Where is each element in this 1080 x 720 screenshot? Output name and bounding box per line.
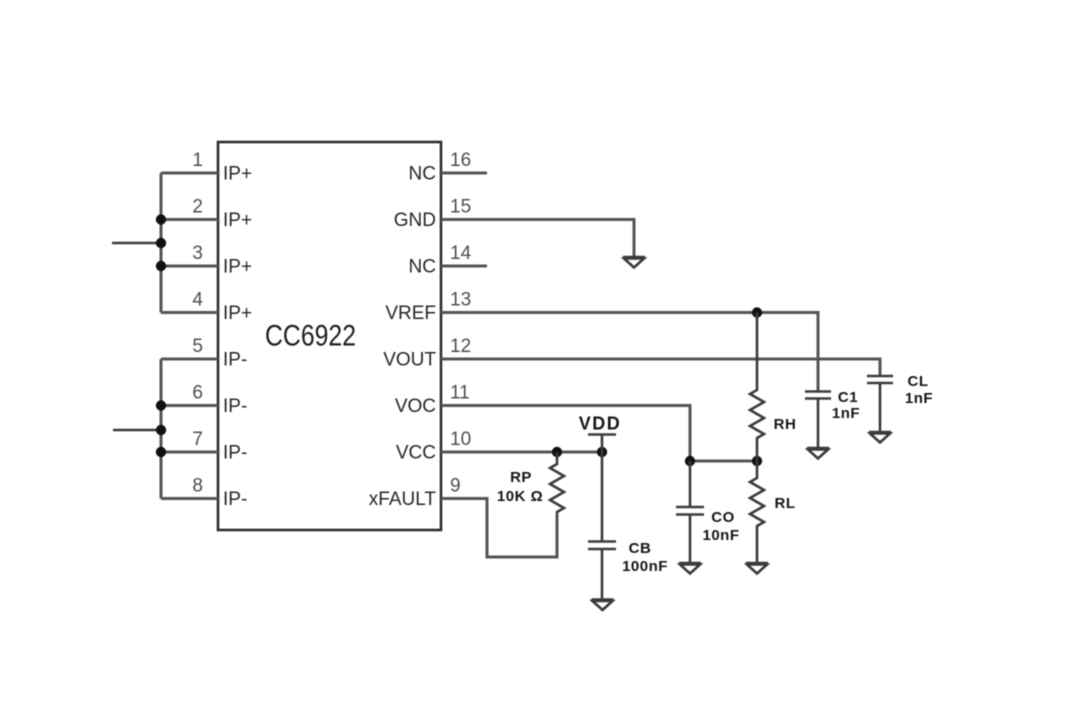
resistor RP: [550, 452, 564, 515]
wire VOC to divider node: [690, 460, 757, 463]
svg-text:3: 3: [192, 243, 203, 264]
junction dot VCC VDD: [597, 447, 607, 457]
junction dot pin7 bus: [156, 447, 166, 457]
svg-text:NC: NC: [409, 164, 436, 185]
svg-text:RH: RH: [774, 416, 797, 433]
svg-text:IP+: IP+: [223, 210, 252, 231]
wire pin10 VCC: [441, 451, 602, 454]
ground symbol RL: [746, 563, 768, 574]
svg-text:CO: CO: [711, 509, 735, 526]
svg-text:4: 4: [192, 290, 203, 311]
junction dot VCC RP: [552, 447, 562, 457]
svg-text:6: 6: [192, 383, 203, 404]
resistor RL: [750, 461, 764, 563]
svg-text:VOC: VOC: [395, 396, 436, 417]
svg-text:12: 12: [450, 336, 471, 357]
svg-text:IP-: IP-: [223, 350, 247, 371]
svg-text:100nF: 100nF: [622, 558, 668, 575]
svg-text:IP-: IP-: [223, 396, 247, 417]
wire pin6 IP-: [161, 404, 218, 407]
svg-text:RL: RL: [775, 495, 796, 512]
svg-text:IP+: IP+: [223, 303, 252, 324]
svg-text:7: 7: [192, 429, 203, 450]
wire pin4 IP+: [161, 311, 218, 314]
svg-text:IP+: IP+: [223, 257, 252, 278]
wire pin1 IP+: [161, 172, 218, 175]
VDD power symbol: [588, 435, 616, 453]
wire pin3 IP+: [161, 265, 218, 268]
junction dot pin3 bus: [156, 261, 166, 271]
wire pin8 IP-: [161, 497, 218, 500]
svg-text:VCC: VCC: [396, 443, 436, 464]
svg-text:1nF: 1nF: [905, 390, 933, 407]
svg-text:10K Ω: 10K Ω: [497, 488, 543, 505]
IC body U1 CC6922: [218, 142, 441, 530]
svg-text:10: 10: [450, 429, 471, 450]
junction dot pin6 bus: [156, 400, 166, 410]
wire pin16 NC stub: [441, 172, 487, 175]
junction dot VREF RH: [752, 307, 762, 317]
wire pin9 xFAULT loop: [441, 499, 557, 558]
ground symbol CB: [592, 600, 614, 611]
wire pin12 VOUT: [441, 359, 880, 376]
svg-text:11: 11: [450, 383, 470, 404]
ground symbol GND pin15: [623, 257, 645, 268]
svg-text:VDD: VDD: [579, 414, 622, 434]
junction dot divider node: [752, 456, 762, 466]
svg-text:16: 16: [450, 150, 471, 171]
wire pin7 IP-: [161, 451, 218, 454]
svg-text:2: 2: [192, 197, 203, 218]
capacitor C1: [805, 391, 831, 448]
svg-text:8: 8: [192, 476, 203, 497]
ground symbol CL: [869, 432, 891, 443]
svg-text:15: 15: [450, 197, 471, 218]
wire pin14 NC stub: [441, 265, 487, 268]
svg-text:IP+: IP+: [223, 164, 252, 185]
svg-text:14: 14: [450, 243, 472, 264]
svg-text:1: 1: [192, 150, 203, 171]
svg-text:1nF: 1nF: [832, 405, 860, 422]
wire IP+ bus vertical: [160, 173, 163, 313]
wire pin2 IP+: [161, 218, 218, 221]
wire IP- bus vertical: [160, 359, 163, 499]
svg-text:IP-: IP-: [223, 443, 247, 464]
wire IP- input stub: [113, 429, 161, 432]
capacitor CL: [867, 376, 893, 432]
svg-text:NC: NC: [409, 257, 436, 278]
svg-text:9: 9: [450, 476, 461, 497]
junction dot IP+ stub: [156, 238, 166, 248]
svg-text:CC6922: CC6922: [265, 320, 356, 353]
capacitor CO: [676, 461, 704, 563]
junction dot IP- stub: [156, 425, 166, 435]
svg-text:CL: CL: [908, 373, 929, 390]
svg-text:IP-: IP-: [223, 489, 247, 510]
junction dot pin2 bus: [156, 214, 166, 224]
wire pin11 VOC: [441, 406, 690, 462]
ground symbol CO: [679, 563, 701, 574]
capacitor CB: [588, 452, 616, 600]
svg-text:VOUT: VOUT: [383, 350, 436, 371]
svg-text:5: 5: [192, 336, 203, 357]
resistor RH: [750, 313, 764, 462]
svg-text:GND: GND: [394, 210, 436, 231]
wire pin15 GND: [441, 220, 634, 258]
svg-text:13: 13: [450, 290, 471, 311]
svg-text:10nF: 10nF: [702, 527, 739, 544]
svg-text:CB: CB: [629, 540, 652, 557]
svg-text:C1: C1: [838, 389, 858, 406]
svg-text:RP: RP: [510, 469, 532, 486]
svg-text:xFAULT: xFAULT: [369, 489, 437, 510]
wire pin5 IP-: [161, 358, 218, 361]
ground symbol C1: [807, 448, 829, 459]
wire pin13 VREF: [441, 313, 818, 392]
junction dot CO node: [685, 456, 695, 466]
wire IP+ input stub: [112, 242, 161, 245]
svg-text:VREF: VREF: [385, 303, 436, 324]
